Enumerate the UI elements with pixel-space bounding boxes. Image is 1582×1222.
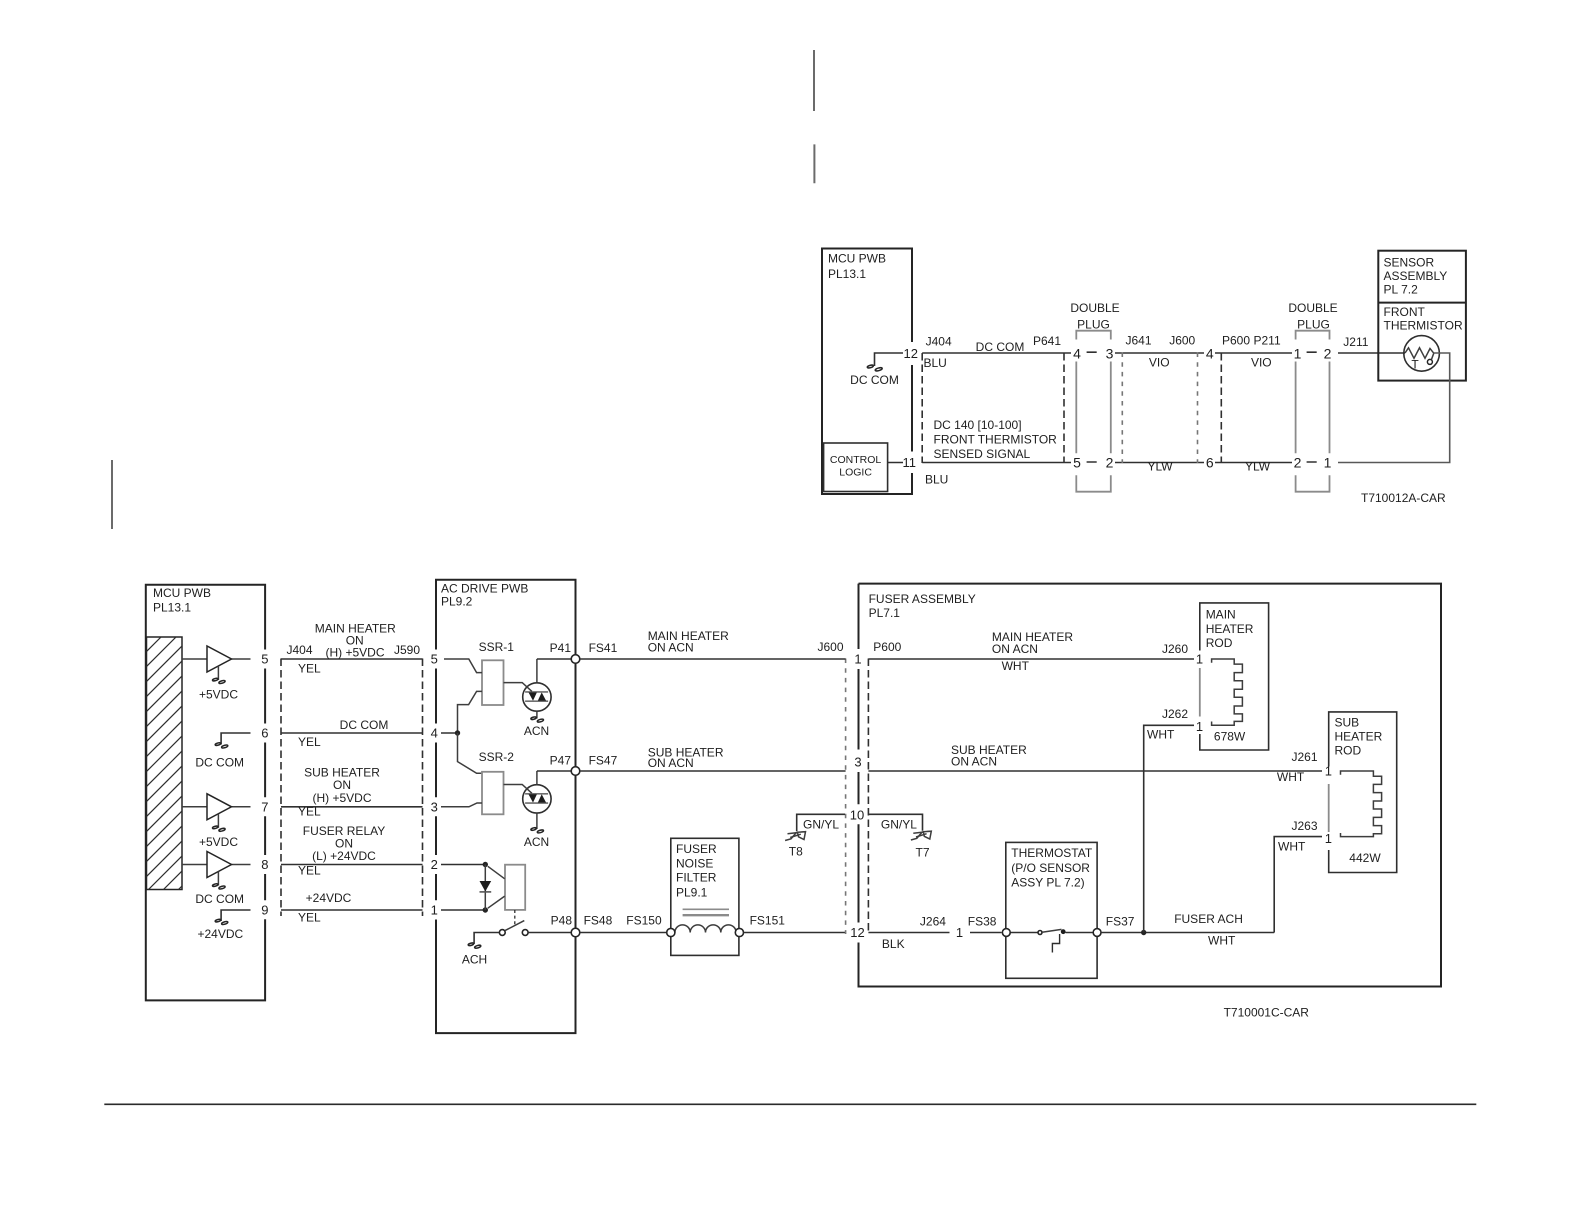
- vertical to SSR-2: [458, 733, 483, 773]
- MCU PWB box (top diagram): [822, 249, 912, 495]
- svg-text:THERMISTOR: THERMISTOR: [1384, 319, 1463, 333]
- svg-text:T710001C-CAR: T710001C-CAR: [1224, 1005, 1310, 1019]
- stray fold marks: [112, 50, 814, 529]
- internal bus (hatched block): [147, 637, 183, 890]
- svg-text:HEATER: HEATER: [1335, 729, 1383, 743]
- mechanical link: [514, 910, 516, 926]
- svg-text:J261: J261: [1291, 750, 1317, 764]
- svg-text:5: 5: [261, 652, 268, 667]
- svg-text:ON ACN: ON ACN: [951, 755, 997, 769]
- svg-text:DC 140 [10-100]: DC 140 [10-100]: [934, 418, 1022, 432]
- svg-text:J211: J211: [1343, 335, 1368, 349]
- svg-text:P47: P47: [550, 754, 572, 768]
- svg-text:J641: J641: [1126, 334, 1152, 348]
- wire sub heater row P47 to rod: [580, 770, 1322, 772]
- svg-text:ROD: ROD: [1335, 744, 1362, 758]
- svg-text:(H) +5VDC: (H) +5VDC: [325, 646, 384, 660]
- svg-text:2: 2: [1294, 455, 1302, 471]
- svg-text:J263: J263: [1291, 819, 1317, 833]
- node FS150: [667, 928, 675, 936]
- node P47: [571, 767, 580, 776]
- svg-text:3: 3: [431, 799, 438, 814]
- svg-text:1: 1: [1325, 831, 1332, 846]
- svg-text:1: 1: [956, 925, 963, 940]
- svg-text:ACN: ACN: [524, 835, 549, 849]
- svg-text:GN/YL: GN/YL: [803, 818, 839, 832]
- svg-text:J404: J404: [926, 335, 952, 349]
- svg-text:WHT: WHT: [1208, 934, 1236, 948]
- svg-text:J260: J260: [1162, 642, 1188, 656]
- svg-text:YEL: YEL: [298, 735, 321, 749]
- connector J590 dashed line: [422, 659, 424, 917]
- svg-text:10: 10: [850, 808, 864, 823]
- svg-text:FRONT: FRONT: [1384, 305, 1426, 319]
- svg-text:WHT: WHT: [1278, 839, 1306, 853]
- svg-text:WHT: WHT: [1147, 727, 1175, 741]
- connector J404 dashed line (bottom): [280, 659, 282, 917]
- svg-text:P600: P600: [1222, 334, 1250, 348]
- svg-text:6: 6: [1206, 455, 1214, 471]
- DC COM ground hook at pin 12: [875, 353, 904, 366]
- THERMOSTAT box: [1006, 842, 1097, 978]
- svg-text:FS48: FS48: [584, 914, 613, 928]
- filter core bars: [683, 908, 729, 910]
- svg-text:YEL: YEL: [298, 911, 321, 925]
- svg-text:9: 9: [261, 902, 268, 917]
- svg-text:FUSER: FUSER: [676, 842, 717, 856]
- svg-text:MAIN: MAIN: [1206, 607, 1236, 621]
- svg-text:T7: T7: [916, 845, 930, 859]
- buffer amplifier pin 7: [182, 806, 251, 808]
- svg-text:1: 1: [1196, 652, 1203, 667]
- double plug 2 bracket: [1296, 331, 1330, 492]
- svg-text:SENSED SIGNAL: SENSED SIGNAL: [934, 447, 1031, 461]
- MAIN HEATER ROD box: [1200, 603, 1269, 750]
- wire pin12 to double plug 1 (DC COM / BLU): [922, 352, 1071, 354]
- svg-text:3: 3: [854, 755, 861, 770]
- svg-text:SSR-1: SSR-1: [479, 640, 515, 654]
- svg-text:BLU: BLU: [924, 356, 947, 370]
- fuser ACH wire FS37 to J263 riser: [1101, 932, 1274, 934]
- connector J600 dashed line (bottom): [845, 659, 847, 935]
- thermostat internal wire: [1010, 932, 1093, 934]
- svg-text:PL9.1: PL9.1: [676, 885, 708, 899]
- J262 return wire to ACH junction: [1144, 725, 1194, 932]
- wire contact to node P48: [528, 932, 571, 934]
- svg-text:FUSER ACH: FUSER ACH: [1174, 912, 1243, 926]
- wire P48 to noise filter: [580, 932, 667, 934]
- svg-text:2: 2: [1106, 455, 1114, 471]
- connector P641 dashed line: [1063, 353, 1065, 463]
- filter inductor coil: [675, 925, 736, 933]
- svg-text:THERMOSTAT: THERMOSTAT: [1011, 846, 1093, 860]
- svg-text:MCU PWB: MCU PWB: [153, 586, 211, 600]
- svg-text:FS150: FS150: [626, 914, 662, 928]
- wire main heater row P41 to rod: [580, 658, 1194, 660]
- svg-text:5: 5: [1073, 455, 1081, 471]
- node FS37: [1093, 929, 1101, 937]
- double plug 1 bracket: [1076, 331, 1111, 492]
- relay contacts: [499, 930, 505, 936]
- svg-text:YLW: YLW: [1147, 460, 1173, 474]
- SENSOR ASSEMBLY box: [1378, 251, 1466, 381]
- svg-text:ASSEMBLY: ASSEMBLY: [1384, 269, 1448, 283]
- svg-text:GN/YL: GN/YL: [881, 818, 917, 832]
- svg-text:FILTER: FILTER: [676, 870, 717, 884]
- pin 6 DC COM hook: [221, 733, 250, 745]
- svg-text:J590: J590: [394, 643, 420, 657]
- svg-text:(L) +24VDC: (L) +24VDC: [312, 849, 376, 863]
- thermistor return wire: [1338, 353, 1450, 463]
- svg-text:DC COM: DC COM: [850, 373, 899, 387]
- svg-text:P211: P211: [1254, 334, 1281, 348]
- svg-text:PL13.1: PL13.1: [828, 267, 866, 281]
- svg-text:7: 7: [261, 799, 268, 814]
- svg-text:P600: P600: [873, 640, 901, 654]
- svg-text:(H) +5VDC: (H) +5VDC: [312, 791, 371, 805]
- svg-text:ACH: ACH: [462, 953, 487, 967]
- node P48: [571, 928, 580, 937]
- svg-text:PL9.2: PL9.2: [441, 595, 473, 609]
- relay coil box: [505, 865, 525, 910]
- svg-text:NOISE: NOISE: [676, 857, 713, 871]
- svg-text:12: 12: [850, 925, 864, 940]
- svg-text:MCU PWB: MCU PWB: [828, 252, 886, 266]
- svg-text:HEATER: HEATER: [1206, 622, 1254, 636]
- svg-text:1: 1: [1325, 763, 1332, 778]
- wire FS151 to fuser assembly pin 12: [744, 932, 1002, 934]
- svg-text:AC DRIVE PWB: AC DRIVE PWB: [441, 582, 528, 596]
- node FS38: [1002, 929, 1010, 937]
- svg-text:YEL: YEL: [298, 661, 321, 675]
- svg-text:LOGIC: LOGIC: [839, 467, 872, 479]
- svg-text:2: 2: [431, 857, 438, 872]
- svg-text:11: 11: [903, 455, 917, 470]
- svg-text:T710012A-CAR: T710012A-CAR: [1361, 491, 1446, 505]
- CONTROL LOGIC box: [824, 443, 888, 492]
- pin 9 +24VDC hook: [221, 910, 250, 921]
- main heater element: [1212, 659, 1243, 725]
- svg-text:1: 1: [1294, 346, 1302, 362]
- svg-text:ON ACN: ON ACN: [992, 642, 1038, 656]
- svg-text:FS47: FS47: [589, 754, 618, 768]
- svg-text:WHT: WHT: [1277, 770, 1305, 784]
- svg-text:DC COM: DC COM: [340, 718, 389, 732]
- J263 return wire: [1274, 837, 1322, 933]
- sub heater element: [1341, 771, 1382, 837]
- svg-text:ACN: ACN: [524, 724, 549, 738]
- svg-text:ON ACN: ON ACN: [648, 641, 694, 655]
- svg-text:FS38: FS38: [968, 915, 997, 929]
- svg-text:2: 2: [1324, 346, 1332, 362]
- svg-text:12: 12: [904, 346, 918, 361]
- connector J600 dashed line: [1197, 353, 1199, 464]
- junction dot ACN common: [455, 730, 460, 735]
- node P41: [571, 655, 580, 664]
- connector J404 dashed line: [921, 353, 923, 463]
- SSR-1 input wire from pin 5: [444, 659, 482, 673]
- svg-text:WHT: WHT: [1002, 659, 1030, 673]
- svg-text:P641: P641: [1033, 334, 1061, 348]
- svg-text:FS41: FS41: [589, 641, 618, 655]
- svg-text:+24VDC: +24VDC: [306, 891, 352, 905]
- svg-text:CONTROL: CONTROL: [830, 454, 881, 466]
- MCU PWB box (bottom diagram): [146, 585, 265, 1001]
- svg-text:1: 1: [854, 652, 861, 667]
- svg-text:3: 3: [1106, 346, 1114, 362]
- pin 10 GN/YL branch left with thermal fuse T8: [797, 814, 845, 831]
- buffer amplifier pin 5: [182, 658, 251, 660]
- svg-text:J404: J404: [287, 643, 313, 657]
- pin 10 GN/YL branch right with thermal fuse T7: [868, 814, 922, 831]
- AC DRIVE PWB box: [436, 580, 576, 1033]
- wires double plug1 to J600 pins (VIO/YLW): [1115, 353, 1292, 463]
- SUB HEATER ROD box: [1329, 712, 1397, 873]
- svg-text:YLW: YLW: [1245, 460, 1271, 474]
- svg-text:DOUBLE: DOUBLE: [1288, 301, 1337, 315]
- svg-text:FUSER ASSEMBLY: FUSER ASSEMBLY: [869, 592, 976, 606]
- svg-text:4: 4: [1073, 346, 1081, 362]
- svg-text:6: 6: [261, 726, 268, 741]
- svg-text:8: 8: [261, 857, 268, 872]
- svg-text:+24VDC: +24VDC: [198, 927, 244, 941]
- svg-text:J262: J262: [1162, 707, 1188, 721]
- svg-text:FRONT THERMISTOR: FRONT THERMISTOR: [934, 433, 1058, 447]
- svg-text:FS37: FS37: [1106, 915, 1135, 929]
- footer rule: [104, 1103, 1476, 1105]
- FUSER ASSEMBLY box: [859, 584, 1442, 987]
- svg-text:ROD: ROD: [1206, 636, 1233, 650]
- flyback diode: [484, 865, 486, 911]
- svg-text:4: 4: [431, 726, 438, 741]
- svg-text:ON ACN: ON ACN: [648, 756, 694, 770]
- thermostat contact symbol: [1038, 931, 1042, 935]
- svg-text:DOUBLE: DOUBLE: [1070, 301, 1119, 315]
- svg-text:VIO: VIO: [1251, 356, 1272, 370]
- wires MCU to AC DRIVE rows 5..1: [281, 658, 423, 660]
- svg-text:T8: T8: [789, 844, 803, 858]
- svg-text:ASSY PL 7.2): ASSY PL 7.2): [1011, 875, 1084, 889]
- triac TR1: [523, 683, 551, 711]
- svg-text:BLK: BLK: [882, 937, 905, 951]
- svg-text:SSR-2: SSR-2: [479, 750, 515, 764]
- svg-text:DC COM: DC COM: [976, 340, 1025, 354]
- svg-text:1: 1: [1324, 455, 1332, 471]
- svg-text:DC COM: DC COM: [195, 756, 244, 770]
- buffer amplifier pin 8: [182, 864, 251, 866]
- wire pin11 to double plug 1 (BLU): [888, 462, 1071, 464]
- svg-text:+5VDC: +5VDC: [199, 835, 238, 849]
- svg-text:442W: 442W: [1349, 851, 1381, 865]
- SSR-2 input wire from pin 3: [441, 803, 482, 807]
- svg-text:FS151: FS151: [750, 914, 786, 928]
- wire double plug 2 to thermistor: [1338, 352, 1405, 354]
- svg-text:YEL: YEL: [298, 805, 321, 819]
- svg-text:YEL: YEL: [298, 863, 321, 877]
- connector J641 dashed line: [1121, 353, 1123, 464]
- svg-text:5: 5: [431, 652, 438, 667]
- svg-text:(P/O SENSOR: (P/O SENSOR: [1011, 861, 1090, 875]
- svg-text:BLU: BLU: [925, 473, 948, 487]
- svg-text:J600: J600: [817, 640, 843, 654]
- svg-text:PL13.1: PL13.1: [153, 601, 191, 615]
- pin 4 wire to junction: [441, 732, 458, 734]
- svg-text:678W: 678W: [1214, 729, 1246, 743]
- svg-text:P41: P41: [550, 641, 572, 655]
- svg-text:T: T: [1411, 357, 1419, 371]
- svg-text:P48: P48: [551, 914, 573, 928]
- connector P600 dashed line (top diagram): [1220, 353, 1222, 463]
- fuser relay coil circuit: [441, 864, 485, 866]
- junction dot J262/ACH: [1141, 930, 1146, 935]
- svg-text:PL 7.2: PL 7.2: [1384, 283, 1419, 297]
- svg-text:SENSOR: SENSOR: [1384, 256, 1435, 270]
- svg-text:J600: J600: [1169, 334, 1195, 348]
- svg-text:+5VDC: +5VDC: [199, 688, 238, 702]
- svg-text:VIO: VIO: [1149, 356, 1170, 370]
- front thermistor symbol: [1404, 336, 1440, 372]
- connector P600 dashed line (bottom): [867, 659, 869, 935]
- svg-text:J264: J264: [920, 915, 946, 929]
- triac TR2: [523, 785, 551, 813]
- SSR-1 common wire to node 4: [458, 691, 483, 733]
- svg-text:PLUG: PLUG: [1077, 318, 1110, 332]
- svg-text:PL7.1: PL7.1: [869, 606, 901, 620]
- svg-text:1: 1: [431, 902, 438, 917]
- svg-text:DC COM: DC COM: [195, 892, 244, 906]
- svg-text:SUB: SUB: [1335, 716, 1360, 730]
- node FS151: [735, 928, 743, 936]
- svg-text:1: 1: [1196, 719, 1203, 734]
- svg-text:PLUG: PLUG: [1297, 318, 1330, 332]
- svg-text:4: 4: [1206, 346, 1214, 362]
- FUSER NOISE FILTER box: [671, 838, 739, 955]
- ACH feed: [474, 933, 499, 945]
